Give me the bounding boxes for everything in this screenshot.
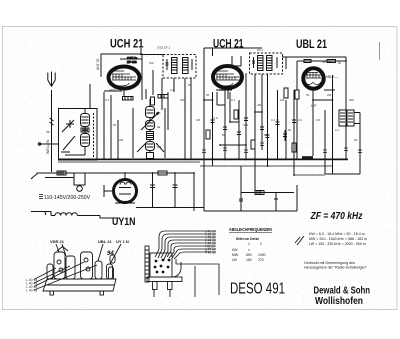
svg-text:300: 300 <box>243 123 248 127</box>
svg-text:2M: 2M <box>327 93 332 97</box>
svg-text:110-145V/200-250V: 110-145V/200-250V <box>44 195 91 201</box>
svg-text:5k: 5k <box>338 61 342 65</box>
svg-text:2: 2 <box>260 242 262 246</box>
svg-text:5k: 5k <box>222 133 226 137</box>
svg-text:KW = 6,0 - 18,4 MHz = 50 -: KW = 6,0 - 18,4 MHz = 50 - 16,4 m <box>309 232 365 236</box>
svg-text:Dewald & Sohn: Dewald & Sohn <box>314 286 371 297</box>
svg-text:2M: 2M <box>257 103 262 107</box>
svg-text:0,1: 0,1 <box>298 118 303 122</box>
svg-text:WELLEN: WELLEN <box>46 139 50 154</box>
svg-text:0,1: 0,1 <box>271 118 276 122</box>
svg-text:4s: 4s <box>46 130 50 134</box>
svg-text:Gedruckt mit Genehmigung des: Gedruckt mit Genehmigung des <box>304 261 355 265</box>
svg-text:UCH 21: UCH 21 <box>110 37 144 51</box>
svg-text:DESO 491: DESO 491 <box>230 281 285 298</box>
svg-text:50: 50 <box>206 93 210 97</box>
svg-text:50: 50 <box>354 138 358 142</box>
svg-text:1M: 1M <box>280 98 285 102</box>
svg-text:MW = 510 - 1640 kHz = 588 -: MW = 510 - 1640 kHz = 588 - 183 m <box>309 237 367 241</box>
svg-text:0,5: 0,5 <box>316 118 321 122</box>
svg-text:h 48 ab: h 48 ab <box>205 250 216 254</box>
svg-text:50: 50 <box>113 123 117 127</box>
svg-text:10k: 10k <box>149 61 154 65</box>
svg-text:Wollishofen: Wollishofen <box>315 296 363 307</box>
svg-text:ZF = 470 kHz: ZF = 470 kHz <box>310 211 363 222</box>
svg-text:ZF 468: ZF 468 <box>127 60 137 64</box>
svg-text:ANT 25: ANT 25 <box>96 58 100 70</box>
svg-text:x: x <box>248 248 250 252</box>
svg-text:0,1: 0,1 <box>231 98 236 102</box>
svg-text:VDR 21: VDR 21 <box>50 239 65 244</box>
svg-text:2M: 2M <box>119 138 124 142</box>
svg-text:1400: 1400 <box>258 253 266 257</box>
svg-text:UY1N: UY1N <box>112 216 136 228</box>
svg-text:hBL+—: hBL+— <box>326 75 338 79</box>
svg-text:6a: 6a <box>157 125 161 129</box>
svg-text:ABGLEICHFREQUENZEN: ABGLEICHFREQUENZEN <box>229 227 272 233</box>
svg-text:50: 50 <box>264 133 268 137</box>
svg-text:UBL 21: UBL 21 <box>98 239 112 244</box>
svg-text:L 40 4a: L 40 4a <box>26 289 37 293</box>
svg-text:H.P: H.P <box>311 104 316 108</box>
svg-text:600: 600 <box>246 253 252 257</box>
svg-text:Tla alat: Tla alat <box>321 60 332 64</box>
svg-text:Herausgebers der "Radio-Scha: Herausgebers der "Radio-Schaltungen" <box>304 266 368 270</box>
svg-text:1: 1 <box>248 242 250 246</box>
svg-text:UCH 21: UCH 21 <box>213 37 244 51</box>
svg-text:0,1: 0,1 <box>335 128 340 132</box>
svg-text:KW: KW <box>232 248 238 252</box>
svg-text:94: 94 <box>107 251 114 257</box>
svg-text:UY 1 N: UY 1 N <box>116 239 129 244</box>
svg-text:50: 50 <box>188 83 192 87</box>
svg-text:UBL 21: UBL 21 <box>296 37 327 51</box>
svg-text:300: 300 <box>180 98 185 102</box>
svg-text:0,1: 0,1 <box>105 98 110 102</box>
svg-text:50: 50 <box>157 111 161 115</box>
svg-text:1M: 1M <box>157 145 162 149</box>
svg-text:ZF 2: ZF 2 <box>257 48 263 52</box>
svg-text:0,1: 0,1 <box>170 88 175 92</box>
svg-text:50: 50 <box>306 93 310 97</box>
svg-text:300: 300 <box>349 98 354 102</box>
svg-text:5k: 5k <box>288 128 292 132</box>
svg-text:1M: 1M <box>196 118 201 122</box>
svg-text:160: 160 <box>246 258 252 262</box>
svg-text:LW: LW <box>232 258 238 262</box>
svg-text:LW = 150 - 330 kHz = 2000 -: LW = 150 - 330 kHz = 2000 - 909 m <box>309 242 366 246</box>
svg-text:MW: MW <box>232 253 239 257</box>
svg-text:0,5: 0,5 <box>214 116 219 120</box>
svg-text:270: 270 <box>258 258 264 262</box>
svg-text:OSZ ZF 1: OSZ ZF 1 <box>157 46 170 50</box>
svg-text:Wellen am Drehko: Wellen am Drehko <box>236 237 260 241</box>
